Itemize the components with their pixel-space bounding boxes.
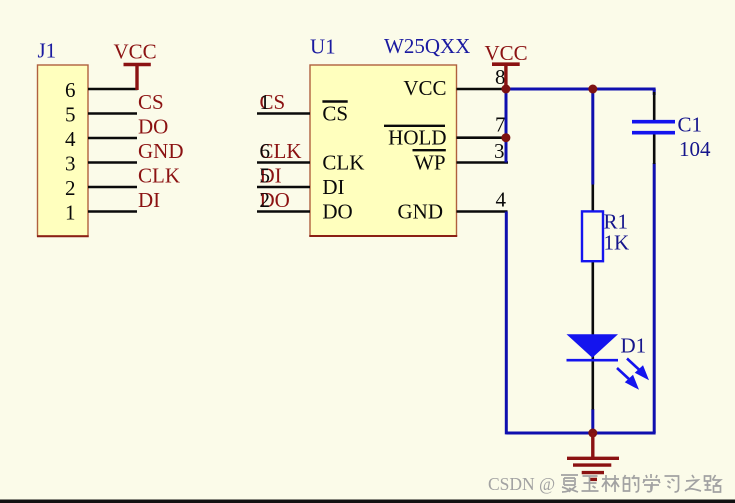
svg-text:2: 2 bbox=[260, 188, 271, 212]
svg-text:U1: U1 bbox=[310, 35, 336, 59]
lu bbox=[705, 475, 721, 492]
wire C1 branch top bbox=[653, 89, 656, 95]
svg-text:GND: GND bbox=[138, 139, 184, 163]
pin name CS with overbar bbox=[322, 102, 348, 126]
U1 pin CLK wire bbox=[257, 161, 310, 164]
ground symbol bbox=[567, 433, 619, 479]
capacitor C1 plates bbox=[632, 122, 675, 133]
svg-text:4: 4 bbox=[496, 188, 507, 212]
svg-text:VCC: VCC bbox=[403, 76, 446, 100]
svg-text:HOLD: HOLD bbox=[388, 126, 446, 150]
svg-text:104: 104 bbox=[679, 137, 711, 161]
LED arrow 1 bbox=[627, 359, 647, 378]
U1 pin DI wire bbox=[257, 186, 310, 189]
xi bbox=[665, 476, 679, 492]
svg-text:DI: DI bbox=[138, 188, 160, 212]
J1 pin 1 wire bbox=[88, 210, 137, 213]
wire LED to bottom bbox=[591, 409, 594, 433]
wire R1 branch vertical bbox=[591, 89, 594, 185]
watermark chinese glyphs bbox=[561, 474, 721, 492]
connector J1 body bbox=[38, 65, 89, 236]
U1 pin DO wire bbox=[257, 210, 310, 213]
wire bottom horizontal bbox=[506, 432, 655, 435]
junction dot R1 branch bbox=[588, 85, 597, 94]
svg-text:6: 6 bbox=[260, 139, 271, 163]
svg-text:DI: DI bbox=[322, 175, 344, 199]
U1 pin 4 wire bbox=[457, 210, 508, 213]
svg-text:DO: DO bbox=[322, 200, 352, 224]
J1 pin 4 wire bbox=[88, 137, 137, 140]
J1 pin 2 wire bbox=[88, 186, 137, 189]
svg-text:J1: J1 bbox=[38, 39, 57, 63]
junction dot ground bbox=[588, 429, 597, 438]
resistor R1 body bbox=[582, 211, 603, 261]
U1 pin 7 wire bbox=[457, 136, 507, 139]
xia bbox=[561, 475, 578, 492]
J1 pin 3 wire bbox=[88, 161, 137, 164]
svg-text:2: 2 bbox=[65, 176, 76, 200]
svg-text:D1: D1 bbox=[621, 334, 647, 358]
svg-text:6: 6 bbox=[65, 78, 76, 102]
U1 pin 8 wire bbox=[457, 88, 507, 91]
svg-text:CSDN @: CSDN @ bbox=[488, 474, 555, 494]
junction dot pin8/VCC bbox=[501, 85, 510, 94]
svg-text:1: 1 bbox=[65, 201, 76, 225]
R1 top pin bbox=[591, 185, 594, 213]
power VCC (U1 pin 8) bbox=[485, 41, 528, 89]
svg-text:VCC: VCC bbox=[114, 40, 157, 64]
C1 bottom pin bbox=[653, 135, 656, 165]
svg-text:5: 5 bbox=[65, 103, 76, 127]
svg-text:3: 3 bbox=[494, 139, 505, 163]
svg-text:3: 3 bbox=[65, 152, 76, 176]
yu bbox=[582, 476, 599, 491]
svg-text:4: 4 bbox=[65, 127, 76, 151]
C1 top pin bbox=[653, 92, 656, 120]
wire pin4 down vertical bbox=[505, 212, 508, 435]
svg-text:1K: 1K bbox=[604, 231, 630, 255]
junction dot pin7 bbox=[501, 133, 510, 142]
pin name HOLD with overbar bbox=[384, 126, 447, 150]
LED D1 triangle bbox=[567, 334, 619, 358]
svg-text:CS: CS bbox=[322, 102, 348, 126]
svg-text:C1: C1 bbox=[678, 113, 703, 137]
svg-text:WP: WP bbox=[414, 151, 446, 175]
U1 pin 3 wire bbox=[457, 161, 509, 164]
J1 pin 5 wire bbox=[88, 112, 137, 115]
wire C1 branch bottom bbox=[653, 163, 656, 433]
J1 pin 6 wire bbox=[88, 88, 138, 91]
U1 pin CS wire bbox=[257, 112, 310, 115]
pin name WP with overbar bbox=[413, 150, 446, 174]
svg-text:W25QXX: W25QXX bbox=[384, 34, 470, 58]
wire pin8 to pin3 vertical bbox=[505, 89, 508, 163]
svg-text:CS: CS bbox=[138, 90, 164, 114]
R1 bottom pin + LED pins bbox=[591, 261, 594, 410]
svg-text:7: 7 bbox=[495, 113, 506, 137]
svg-text:VCC: VCC bbox=[485, 41, 528, 65]
bottom black bar bbox=[0, 500, 735, 503]
IC U1 body bbox=[310, 65, 457, 236]
xue bbox=[643, 474, 660, 492]
LED D1 cathode bar bbox=[567, 359, 619, 362]
svg-text:GND: GND bbox=[398, 200, 444, 224]
svg-text:1: 1 bbox=[260, 90, 271, 114]
lin bbox=[602, 475, 619, 492]
svg-text:DO: DO bbox=[138, 115, 168, 139]
svg-text:CLK: CLK bbox=[322, 151, 364, 175]
zhi bbox=[685, 475, 701, 491]
de bbox=[624, 475, 640, 492]
svg-text:5: 5 bbox=[260, 164, 271, 188]
wire VCC rail horizontal bbox=[506, 88, 656, 91]
LED arrow 2 bbox=[617, 368, 637, 387]
svg-text:CLK: CLK bbox=[138, 164, 180, 188]
power VCC (J1) bbox=[114, 40, 157, 91]
